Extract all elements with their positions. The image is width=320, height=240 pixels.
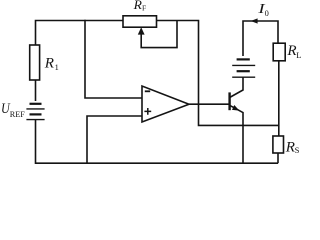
svg-text:REF: REF bbox=[10, 110, 25, 119]
svg-text:L: L bbox=[296, 50, 301, 60]
svg-text:R: R bbox=[285, 139, 295, 155]
svg-text:R: R bbox=[44, 55, 54, 71]
svg-text:0: 0 bbox=[265, 9, 269, 18]
svg-text:F: F bbox=[142, 4, 146, 13]
svg-text:S: S bbox=[295, 145, 300, 155]
svg-text:R: R bbox=[286, 43, 296, 59]
svg-text:1: 1 bbox=[55, 63, 59, 72]
svg-text:R: R bbox=[133, 0, 142, 12]
